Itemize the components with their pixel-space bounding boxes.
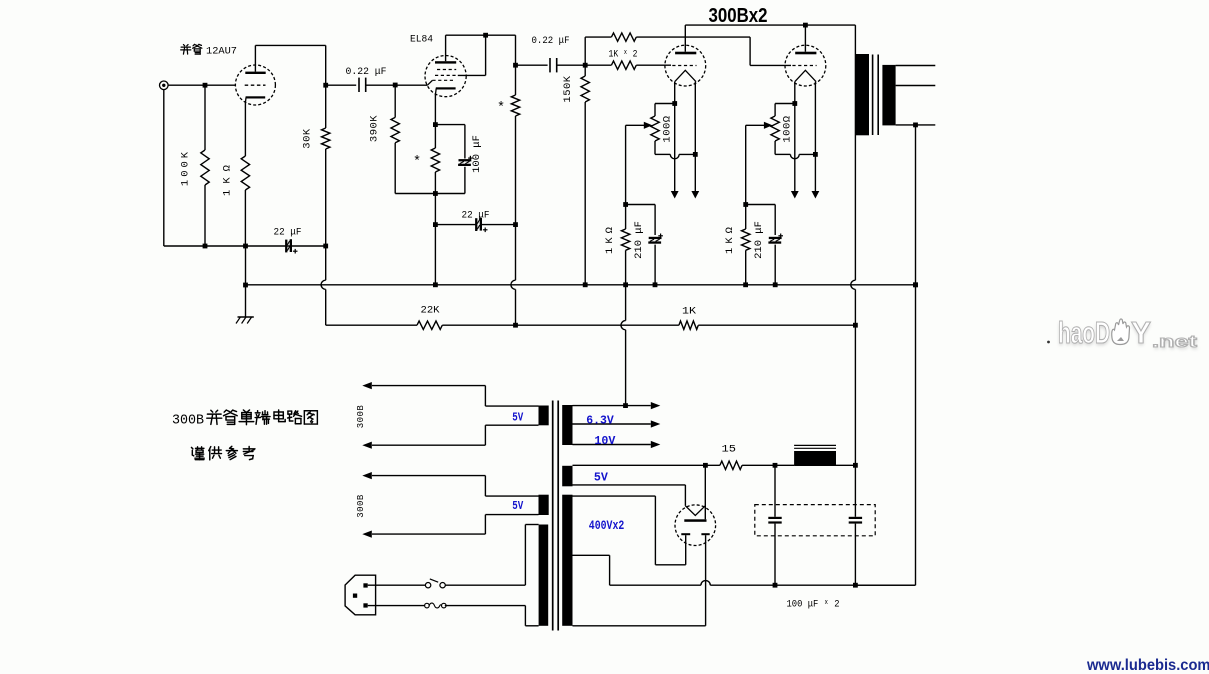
svg-text:22 μF: 22 μF bbox=[274, 227, 302, 239]
svg-text:100Ω: 100Ω bbox=[662, 115, 674, 142]
svg-text:300Bx2: 300Bx2 bbox=[709, 5, 768, 27]
svg-text:haoD: haoD bbox=[1058, 315, 1110, 350]
svg-text:0.22 μF: 0.22 μF bbox=[532, 35, 570, 47]
svg-text:30K: 30K bbox=[302, 128, 314, 149]
svg-text:300B: 300B bbox=[172, 413, 204, 429]
svg-text:22 μF: 22 μF bbox=[462, 210, 490, 222]
svg-text:300B: 300B bbox=[356, 494, 366, 518]
svg-text:5V: 5V bbox=[594, 470, 609, 484]
svg-text:www.lubebis.com: www.lubebis.com bbox=[1086, 657, 1209, 674]
svg-text:0.22 μF: 0.22 μF bbox=[346, 66, 387, 78]
svg-text:100Ω: 100Ω bbox=[782, 115, 794, 142]
svg-text:150K: 150K bbox=[562, 75, 574, 102]
svg-text:100 μF ˣ 2: 100 μF ˣ 2 bbox=[787, 599, 840, 611]
svg-text:390K: 390K bbox=[369, 115, 381, 142]
svg-text:5V: 5V bbox=[512, 410, 524, 424]
svg-text:100 μF: 100 μF bbox=[471, 135, 483, 173]
svg-text:22K: 22K bbox=[421, 305, 441, 317]
svg-text:300B: 300B bbox=[356, 405, 366, 429]
svg-text:EL84: EL84 bbox=[410, 34, 433, 46]
svg-text:12AU7: 12AU7 bbox=[206, 46, 237, 58]
svg-text:.net: .net bbox=[1152, 332, 1197, 351]
svg-text:400Vx2: 400Vx2 bbox=[589, 519, 625, 533]
svg-text:*: * bbox=[413, 155, 421, 170]
svg-text:1KΩ: 1KΩ bbox=[222, 159, 234, 196]
svg-text:*: * bbox=[497, 101, 505, 116]
svg-text:210 μF: 210 μF bbox=[753, 221, 765, 259]
svg-text:1KΩ: 1KΩ bbox=[604, 223, 616, 254]
svg-text:210 μF: 210 μF bbox=[633, 221, 645, 259]
svg-text:1K: 1K bbox=[682, 306, 697, 318]
svg-text:15: 15 bbox=[722, 444, 737, 456]
svg-text:100K: 100K bbox=[180, 149, 192, 186]
svg-text:1K ˣ 2: 1K ˣ 2 bbox=[609, 49, 638, 61]
svg-text:5V: 5V bbox=[512, 499, 524, 513]
svg-text:6.3V: 6.3V bbox=[586, 413, 614, 427]
svg-text:10V: 10V bbox=[594, 434, 616, 448]
svg-text:Y: Y bbox=[1131, 315, 1151, 350]
svg-text:1KΩ: 1KΩ bbox=[724, 223, 736, 254]
